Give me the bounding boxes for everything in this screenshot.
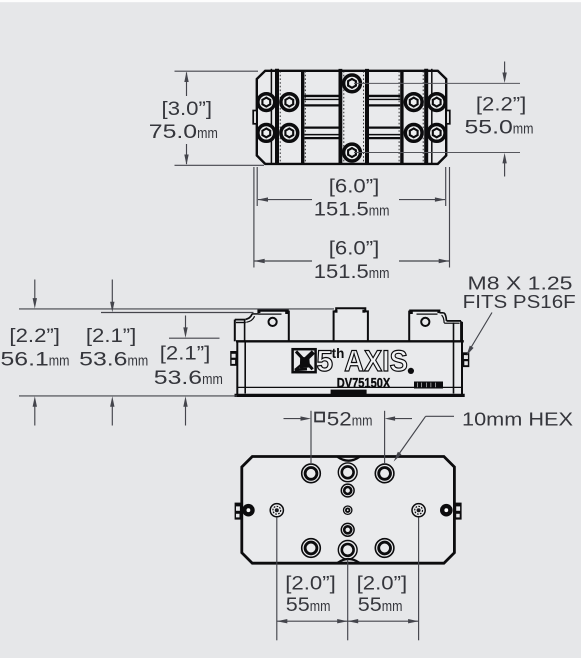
- svg-text:[2.0”]: [2.0”]: [357, 572, 408, 594]
- svg-text:[2.2”]: [2.2”]: [476, 94, 527, 116]
- svg-text:53.6mm: 53.6mm: [154, 367, 223, 389]
- svg-text:151.5mm: 151.5mm: [314, 261, 390, 283]
- svg-text:[3.0”]: [3.0”]: [162, 98, 213, 120]
- svg-text:[6.0”]: [6.0”]: [329, 238, 380, 260]
- svg-text:FITS PS16F: FITS PS16F: [463, 291, 576, 312]
- svg-text:52mm: 52mm: [327, 409, 373, 431]
- svg-text:AXIS: AXIS: [344, 345, 408, 378]
- svg-text:th: th: [332, 346, 345, 361]
- svg-text:[2.0”]: [2.0”]: [285, 572, 336, 594]
- svg-text:55.0mm: 55.0mm: [465, 117, 534, 139]
- svg-text:[2.1”]: [2.1”]: [160, 343, 211, 365]
- svg-text:151.5mm: 151.5mm: [314, 198, 390, 220]
- svg-text:53.6mm: 53.6mm: [79, 349, 148, 371]
- svg-text:[6.0”]: [6.0”]: [329, 176, 380, 198]
- svg-text:55mm: 55mm: [358, 594, 403, 616]
- svg-text:M8 X 1.25: M8 X 1.25: [468, 272, 573, 293]
- svg-text:10mm HEX: 10mm HEX: [462, 408, 573, 429]
- svg-text:DV75150X: DV75150X: [337, 375, 391, 390]
- svg-text:[2.2”]: [2.2”]: [9, 325, 59, 347]
- svg-text:5: 5: [316, 345, 333, 378]
- svg-text:56.1mm: 56.1mm: [1, 349, 70, 371]
- svg-text:55mm: 55mm: [286, 594, 331, 616]
- svg-text:[2.1”]: [2.1”]: [86, 325, 137, 347]
- svg-text:75.0mm: 75.0mm: [149, 121, 218, 143]
